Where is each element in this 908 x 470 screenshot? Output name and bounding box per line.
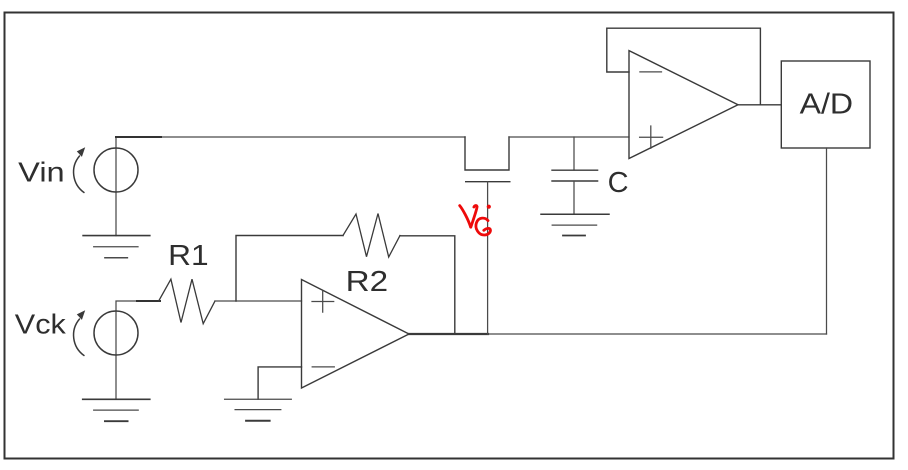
U1 noninverting input +	[312, 291, 334, 312]
wire M1 gate to U1 output	[487, 182, 489, 334]
wire U1 output to A/D drop	[488, 333, 827, 335]
svg-text:R2: R2	[346, 266, 389, 298]
U1 inverting input -	[312, 366, 334, 368]
A/D block	[781, 61, 870, 148]
capacitor C	[573, 137, 575, 170]
ground Vin	[83, 235, 150, 237]
wire Vin vertical and top rail	[116, 137, 465, 236]
wire U1 inverting input to ground	[258, 367, 301, 399]
node VG red dot	[487, 205, 491, 209]
svg-text:R1: R1	[168, 240, 209, 272]
voltage source Vin	[94, 148, 138, 192]
ground U1	[225, 398, 292, 400]
wire U2 output to A/D	[738, 104, 781, 106]
resistor R1	[159, 279, 215, 324]
ground C	[541, 213, 609, 215]
wire R1 to op-amp U1 noninverting input	[215, 300, 302, 302]
U2 noninverting input +	[640, 126, 663, 148]
wire U1 output (thick segment)	[409, 333, 488, 335]
svg-text:Vin: Vin	[18, 157, 64, 188]
op-amp U2	[629, 51, 738, 159]
wire feedback node to R2	[236, 236, 343, 302]
ground Vck	[83, 398, 150, 400]
wire top rail right section	[509, 136, 629, 138]
transistor M1 MOS switch	[465, 137, 509, 170]
wire R2 to U1 output	[400, 236, 455, 334]
wire top rail thick stub	[116, 136, 161, 138]
wire Vck vertical	[116, 301, 159, 399]
node VG red handwritten label	[460, 206, 491, 235]
M1 gate plate	[466, 181, 510, 183]
polarity arrow Vin	[74, 156, 84, 193]
svg-text:Vck: Vck	[15, 309, 67, 340]
wire Vck thick stub	[137, 300, 160, 302]
wire U2 feedback loop	[607, 28, 761, 105]
svg-text:A/D: A/D	[800, 89, 854, 121]
wire A/D bottom to U1 output line	[826, 148, 828, 334]
resistor R2	[343, 214, 400, 258]
U2 inverting input -	[640, 71, 662, 73]
svg-text:C: C	[608, 167, 629, 199]
op-amp U1	[302, 280, 410, 389]
voltage source Vck	[94, 311, 138, 355]
polarity arrow Vck	[74, 319, 84, 356]
